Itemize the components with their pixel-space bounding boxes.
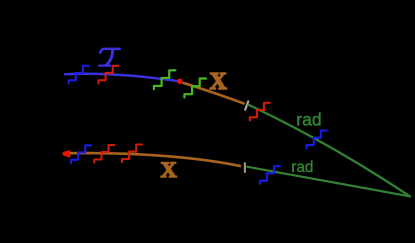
squiggle S6 (blue) on lower orange segment — [71, 145, 91, 163]
label T (calligraphic) foot — [99, 64, 110, 66]
worldline 2: red arrowhead at start — [63, 151, 70, 158]
svg-text:rad: rad — [296, 110, 321, 130]
squiggle S5 (blue) on upper green line — [307, 131, 327, 149]
squiggle S7 (red) on lower orange segment — [94, 145, 114, 163]
squiggle S4 (red) on upper green line — [250, 103, 270, 121]
event dot (red) on worldline 1 — [177, 79, 183, 85]
squiggle S2 (red) on blue segment — [99, 66, 119, 84]
svg-text:X: X — [161, 157, 178, 182]
gray tick (lower) — [244, 163, 246, 172]
squiggle S1 (blue) on blue segment — [69, 66, 89, 84]
worldline 1: orange segment (X) — [183, 83, 245, 104]
svg-text:rad: rad — [291, 159, 313, 176]
squiggle S10 (blue) on lower green line — [260, 166, 280, 184]
label T (calligraphic) top bar — [100, 49, 119, 53]
worldline 2: green radiation line to observer — [246, 167, 409, 197]
squiggle S8 (red) on lower orange segment — [122, 145, 142, 163]
squiggle S3 (bright green) on blue segment — [154, 70, 176, 89]
label T (calligraphic) stem — [106, 49, 112, 65]
worldline 2: orange segment (X) — [70, 153, 242, 166]
worldline 1: green radiation line to observer — [248, 104, 411, 197]
svg-text:X: X — [210, 69, 228, 95]
worldline 1: blue segment (proper time T) — [64, 74, 181, 82]
gray tick (upper) — [245, 101, 248, 109]
squiggle S9 (bright green) on orange segment — [184, 79, 206, 98]
